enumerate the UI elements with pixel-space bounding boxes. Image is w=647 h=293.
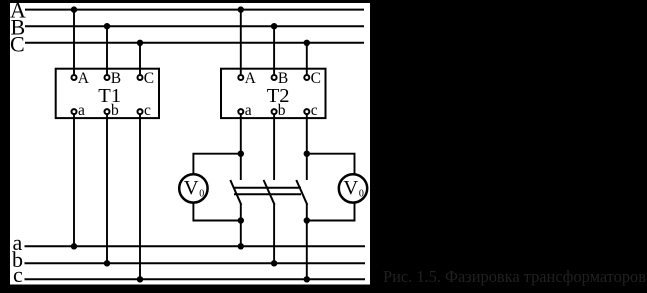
svg-text:a: a	[245, 102, 252, 119]
svg-text:C: C	[144, 70, 154, 87]
svg-text:0: 0	[199, 188, 204, 199]
svg-text:T1: T1	[98, 85, 121, 107]
svg-text:a: a	[78, 102, 85, 119]
svg-text:A: A	[78, 70, 90, 87]
svg-text:Рис. 1.5. Фазировка трансформа: Рис. 1.5. Фазировка трансформаторов	[383, 267, 646, 286]
svg-text:V: V	[184, 177, 199, 199]
svg-text:c: c	[311, 102, 318, 119]
svg-text:C: C	[311, 70, 321, 87]
svg-text:C: C	[10, 32, 25, 57]
svg-text:c: c	[13, 262, 23, 287]
svg-text:T2: T2	[267, 85, 290, 107]
svg-text:c: c	[144, 102, 151, 119]
svg-text:0: 0	[359, 188, 364, 199]
svg-text:A: A	[245, 70, 257, 87]
svg-text:V: V	[343, 177, 358, 199]
